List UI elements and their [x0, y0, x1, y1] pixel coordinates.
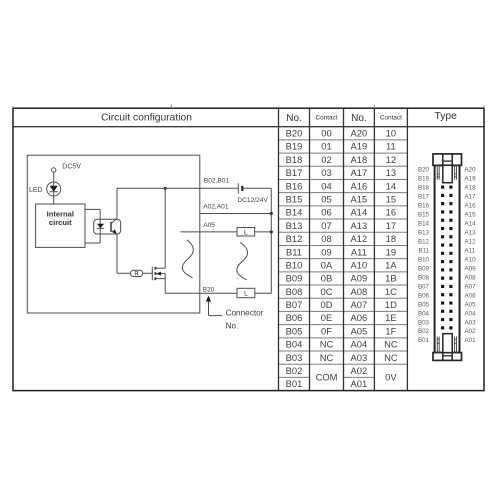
svg-text:A06: A06: [351, 312, 368, 323]
svg-text:A01: A01: [351, 378, 368, 389]
svg-text:01: 01: [321, 141, 331, 152]
svg-text:B05: B05: [418, 301, 430, 308]
svg-text:A07: A07: [351, 299, 368, 310]
svg-text:No.: No.: [226, 322, 239, 331]
svg-text:No.: No.: [286, 113, 302, 124]
svg-text:B13: B13: [418, 229, 430, 236]
svg-text:A10: A10: [465, 256, 477, 263]
svg-text:B20: B20: [286, 128, 303, 139]
svg-text:A04: A04: [351, 339, 368, 350]
svg-text:03: 03: [321, 167, 331, 178]
svg-text:A20: A20: [351, 128, 368, 139]
svg-text:B15: B15: [418, 212, 430, 219]
svg-text:B12: B12: [286, 233, 303, 244]
svg-text:A16: A16: [351, 180, 368, 191]
svg-text:A08: A08: [465, 274, 477, 281]
svg-text:1D: 1D: [385, 299, 397, 310]
svg-text:B16: B16: [286, 180, 303, 191]
svg-text:0A: 0A: [321, 259, 333, 270]
svg-text:R: R: [134, 272, 139, 278]
svg-text:11: 11: [386, 141, 396, 152]
svg-text:1E: 1E: [385, 312, 396, 323]
svg-text:Type: Type: [435, 111, 458, 122]
svg-text:A02,A01: A02,A01: [203, 204, 229, 211]
svg-text:B04: B04: [286, 339, 303, 350]
svg-text:09: 09: [321, 246, 331, 257]
svg-text:A08: A08: [351, 286, 368, 297]
svg-text:B12: B12: [418, 238, 430, 245]
svg-text:B18: B18: [286, 154, 303, 165]
svg-text:05: 05: [321, 194, 331, 205]
svg-text:08: 08: [321, 233, 331, 244]
svg-text:1B: 1B: [385, 273, 396, 284]
svg-text:B11: B11: [418, 247, 429, 254]
svg-text:A19: A19: [351, 141, 368, 152]
svg-text:B01: B01: [418, 337, 430, 344]
svg-text:A03: A03: [351, 352, 368, 363]
svg-text:A15: A15: [465, 212, 477, 219]
svg-text:16: 16: [386, 207, 396, 218]
svg-text:A09: A09: [465, 265, 477, 272]
svg-text:B07: B07: [418, 283, 430, 290]
svg-text:B08: B08: [418, 274, 430, 281]
svg-text:A14: A14: [465, 220, 477, 227]
svg-text:B09: B09: [418, 265, 430, 272]
svg-text:B20: B20: [418, 167, 430, 174]
svg-text:A15: A15: [351, 194, 368, 205]
svg-text:Circuit configuration: Circuit configuration: [101, 113, 192, 124]
svg-text:A19: A19: [465, 176, 477, 183]
svg-text:A01: A01: [465, 337, 477, 344]
svg-text:A20: A20: [465, 167, 477, 174]
svg-text:NC: NC: [384, 339, 398, 350]
svg-text:B14: B14: [286, 207, 303, 218]
svg-text:1A: 1A: [385, 259, 397, 270]
svg-text:NC: NC: [320, 352, 334, 363]
svg-text:B09: B09: [286, 273, 303, 284]
svg-text:1F: 1F: [385, 325, 396, 336]
svg-text:B11: B11: [286, 246, 302, 257]
svg-text:B19: B19: [418, 176, 430, 183]
svg-text:B05: B05: [286, 325, 303, 336]
svg-text:Contact: Contact: [315, 115, 337, 122]
svg-text:A05: A05: [351, 325, 368, 336]
svg-text:COM: COM: [316, 372, 338, 383]
svg-text:A12: A12: [465, 238, 477, 245]
svg-text:B03: B03: [418, 319, 430, 326]
svg-text:A13: A13: [465, 229, 477, 236]
svg-text:B10: B10: [286, 259, 303, 270]
svg-text:A09: A09: [351, 273, 368, 284]
svg-text:A12: A12: [351, 233, 368, 244]
svg-text:B18: B18: [418, 185, 430, 192]
svg-text:18: 18: [386, 233, 396, 244]
svg-text:A02: A02: [351, 365, 368, 376]
svg-text:DC12/24V: DC12/24V: [237, 197, 268, 204]
svg-text:07: 07: [321, 220, 331, 231]
svg-text:B01: B01: [286, 378, 303, 389]
svg-text:A02: A02: [465, 328, 477, 335]
svg-text:B02,B01: B02,B01: [204, 178, 230, 185]
svg-text:B04: B04: [418, 310, 430, 317]
svg-text:B20: B20: [203, 287, 215, 294]
svg-text:0V: 0V: [385, 372, 397, 383]
svg-text:A16: A16: [465, 203, 477, 210]
svg-text:0D: 0D: [321, 299, 333, 310]
svg-text:A11: A11: [351, 246, 367, 257]
svg-text:B13: B13: [286, 220, 303, 231]
svg-text:A04: A04: [465, 310, 477, 317]
svg-text:B15: B15: [286, 194, 303, 205]
svg-text:A03: A03: [465, 319, 477, 326]
svg-text:L: L: [244, 291, 248, 298]
svg-text:06: 06: [321, 207, 331, 218]
svg-text:A10: A10: [351, 259, 368, 270]
svg-text:A07: A07: [465, 283, 477, 290]
svg-text:B19: B19: [286, 141, 303, 152]
svg-text:0B: 0B: [321, 273, 332, 284]
svg-text:A06: A06: [465, 292, 477, 299]
svg-text:Connector: Connector: [226, 309, 264, 318]
svg-text:No.: No.: [351, 113, 367, 124]
svg-text:0F: 0F: [321, 325, 332, 336]
svg-text:0C: 0C: [321, 286, 333, 297]
svg-text:B02: B02: [418, 328, 430, 335]
svg-text:B10: B10: [418, 256, 430, 263]
svg-text:A18: A18: [351, 154, 368, 165]
svg-text:Contact: Contact: [380, 115, 402, 122]
svg-text:LED: LED: [29, 187, 43, 194]
svg-text:13: 13: [386, 167, 396, 178]
svg-text:B17: B17: [286, 167, 303, 178]
svg-text:A17: A17: [351, 167, 368, 178]
svg-text:B08: B08: [286, 286, 303, 297]
svg-text:B16: B16: [418, 203, 430, 210]
svg-text:A05: A05: [203, 222, 215, 229]
svg-text:B17: B17: [418, 194, 430, 201]
svg-text:B02: B02: [286, 365, 303, 376]
svg-text:1C: 1C: [385, 286, 397, 297]
svg-text:04: 04: [321, 180, 331, 191]
svg-text:L: L: [244, 229, 248, 236]
svg-text:A13: A13: [351, 220, 368, 231]
svg-text:02: 02: [321, 154, 331, 165]
svg-text:A14: A14: [351, 207, 368, 218]
svg-text:15: 15: [386, 194, 396, 205]
svg-text:A18: A18: [465, 185, 477, 192]
svg-text:10: 10: [386, 128, 396, 139]
svg-text:12: 12: [386, 154, 396, 165]
svg-text:14: 14: [386, 180, 396, 191]
svg-text:NC: NC: [320, 339, 334, 350]
svg-text:B03: B03: [286, 352, 303, 363]
svg-text:NC: NC: [384, 352, 398, 363]
svg-text:0E: 0E: [321, 312, 332, 323]
svg-text:A17: A17: [465, 194, 477, 201]
svg-text:circuit: circuit: [49, 218, 72, 227]
svg-text:17: 17: [386, 220, 396, 231]
svg-text:B14: B14: [418, 220, 430, 227]
svg-text:A11: A11: [465, 247, 476, 254]
svg-text:DC5V: DC5V: [62, 164, 81, 171]
svg-text:B07: B07: [286, 299, 303, 310]
svg-text:B06: B06: [286, 312, 303, 323]
svg-text:A05: A05: [465, 301, 477, 308]
svg-text:19: 19: [386, 246, 396, 257]
svg-text:B06: B06: [418, 292, 430, 299]
svg-text:00: 00: [321, 128, 331, 139]
